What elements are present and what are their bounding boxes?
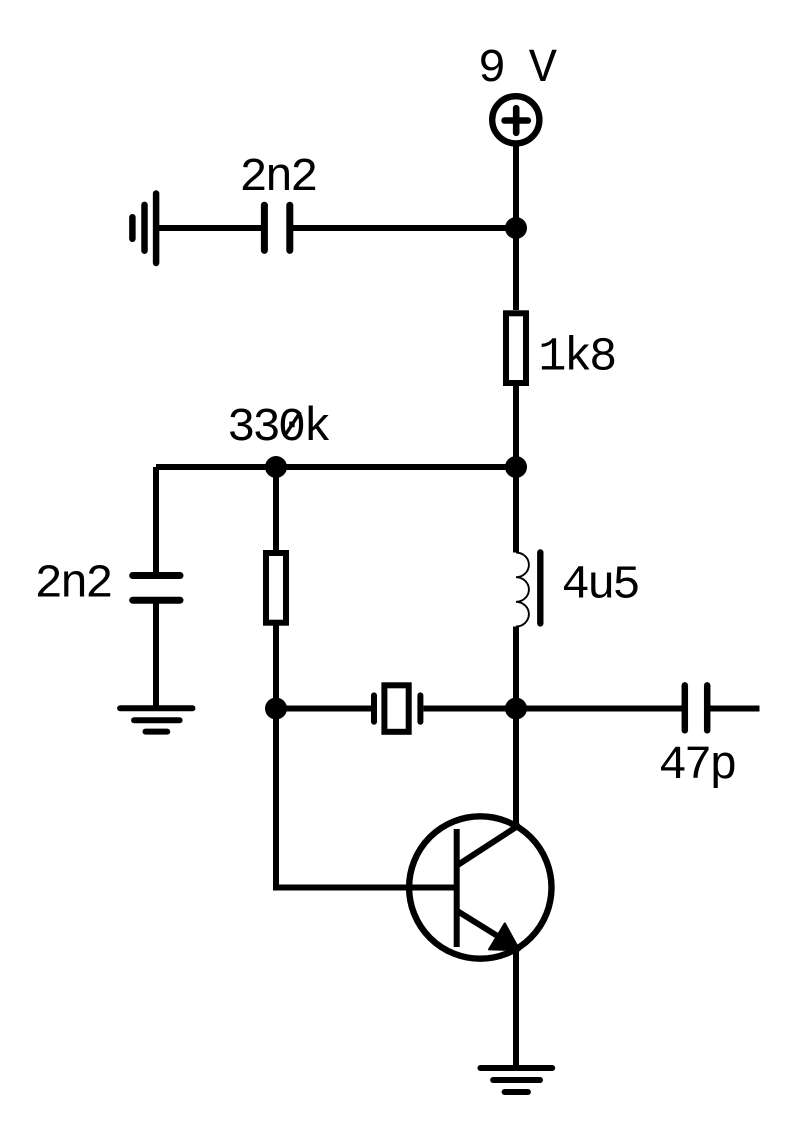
svg-text:2n2: 2n2 — [240, 152, 316, 205]
svg-text:4u5: 4u5 — [562, 560, 639, 613]
svg-text:9 V: 9 V — [478, 43, 557, 96]
svg-text:1k8: 1k8 — [538, 332, 615, 385]
svg-text:47p: 47p — [659, 740, 736, 793]
svg-text:330k: 330k — [227, 402, 329, 455]
svg-text:2n2: 2n2 — [35, 559, 111, 612]
